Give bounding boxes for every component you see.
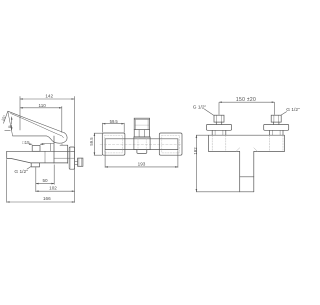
svg-text:142: 142 [45,94,53,99]
svg-text:150 ±20: 150 ±20 [236,97,256,103]
svg-text:182: 182 [193,147,198,155]
svg-text:40: 40 [8,125,12,129]
svg-text:G 1/2": G 1/2" [14,169,28,175]
svg-text:166: 166 [43,196,51,201]
svg-text:50: 50 [42,178,48,183]
svg-text:59.5: 59.5 [89,137,94,146]
svg-text:□15: □15 [22,140,30,145]
svg-text:G 1/2": G 1/2" [286,107,300,113]
svg-text:110: 110 [39,103,47,108]
svg-text:102: 102 [49,186,57,191]
svg-text:G 1/2": G 1/2" [193,105,207,111]
svg-text:193: 193 [138,162,146,167]
svg-text:59.5: 59.5 [110,119,119,124]
